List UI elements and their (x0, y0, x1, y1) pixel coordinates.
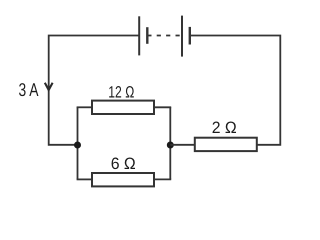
svg-text:3 A: 3 A (19, 79, 39, 100)
battery B1 long plate left cell (138, 16, 140, 55)
battery B1 short plate right cell (189, 27, 191, 45)
svg-text:12 Ω: 12 Ω (108, 83, 134, 101)
wire top-left (from left corner to battery) (49, 36, 140, 145)
current arrow (3 A) on left wire (44, 82, 54, 92)
battery B1 short plate left cell (146, 27, 148, 44)
resistor R1 12-ohm box (92, 101, 154, 114)
node right junction wire bracket (169, 107, 171, 179)
node right junction dot (167, 142, 174, 149)
wire top-right (from battery to right corner down to 2-ohm) (190, 36, 280, 145)
svg-text:6 Ω: 6 Ω (111, 155, 136, 173)
wire 6-ohm branch left stub (77, 178, 92, 180)
battery B1 long plate right cell (181, 16, 183, 57)
wire 12-ohm branch left stub (77, 106, 92, 108)
wire 6-ohm branch right stub (154, 178, 171, 180)
node left junction wire bracket (77, 107, 79, 179)
wire 12-ohm branch right stub (154, 106, 171, 108)
wire dashed between battery cells (147, 35, 181, 37)
resistor R2 6-ohm box (92, 173, 154, 186)
wire right node to 2-ohm resistor (170, 144, 195, 146)
resistor R3 2-ohm box (195, 138, 257, 151)
svg-text:2 Ω: 2 Ω (212, 119, 237, 137)
node left junction dot (74, 142, 81, 149)
